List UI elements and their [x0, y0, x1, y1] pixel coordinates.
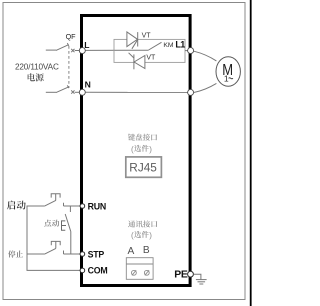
thyristor VT2 [129, 53, 145, 70]
terminal L1 [188, 48, 194, 54]
ground [196, 280, 207, 284]
breaker QF pole 2 [46, 85, 80, 93]
svg-text:B: B [143, 245, 150, 256]
svg-text:N: N [85, 80, 91, 90]
pushbutton 启动 (start, NO) [44, 194, 80, 206]
wire L1 to motor [194, 51, 217, 61]
label 键盘接口 [128, 134, 135, 141]
terminal L [79, 48, 85, 54]
svg-text:L: L [84, 40, 89, 50]
thyristor module box [114, 39, 185, 62]
terminal STP [80, 252, 85, 257]
terminal motor neutral [188, 89, 194, 95]
svg-text:KM: KM [163, 42, 174, 49]
thyristor VT1 [127, 32, 138, 49]
svg-text:RUN: RUN [88, 201, 106, 211]
svg-text:(: ( [131, 145, 134, 154]
svg-text:A: A [128, 246, 135, 257]
terminal PE [188, 271, 194, 277]
svg-text:L1: L1 [175, 40, 185, 50]
label 通讯接口 [128, 220, 135, 227]
label 电源 [28, 73, 35, 81]
svg-text:220/110VAC: 220/110VAC [15, 62, 59, 71]
comm port terminal block [126, 258, 153, 280]
comm terminal screw B [144, 270, 149, 275]
jog switch 点动 [62, 206, 71, 254]
soft starter enclosure [82, 16, 191, 286]
comm terminal screw A [132, 270, 137, 275]
svg-text:RJ45: RJ45 [129, 161, 157, 175]
label 点动 [44, 220, 51, 227]
control rail wire [27, 206, 80, 270]
wire L input to thyristor module [86, 49, 149, 51]
svg-text:QF: QF [66, 32, 77, 41]
terminal RUN [80, 204, 85, 209]
svg-text:STP: STP [88, 249, 105, 259]
svg-text:1: 1 [224, 73, 229, 83]
wire PE to ground [193, 274, 201, 279]
svg-text:VT: VT [146, 55, 156, 62]
pushbutton 停止 (stop) [27, 241, 80, 254]
svg-text:COM: COM [88, 266, 108, 276]
wire N line across enclosure [86, 91, 188, 93]
keypad port RJ45 socket [126, 157, 162, 177]
breaker QF pole 1 [46, 43, 79, 52]
motor M [216, 57, 240, 87]
label 启动 [7, 201, 15, 210]
svg-text:VT: VT [142, 32, 152, 39]
svg-text:): ) [149, 231, 152, 240]
wire module output to L1 [185, 50, 188, 52]
svg-text:(: ( [131, 231, 134, 240]
terminal COM [80, 268, 85, 273]
wire neutral to motor [194, 83, 217, 92]
bypass contactor KM [149, 42, 162, 50]
terminal N [79, 89, 85, 95]
svg-text:PE: PE [174, 270, 188, 281]
label 停止 [8, 250, 15, 257]
svg-text:): ) [149, 145, 152, 154]
breaker QF mechanical linkage [68, 46, 70, 88]
